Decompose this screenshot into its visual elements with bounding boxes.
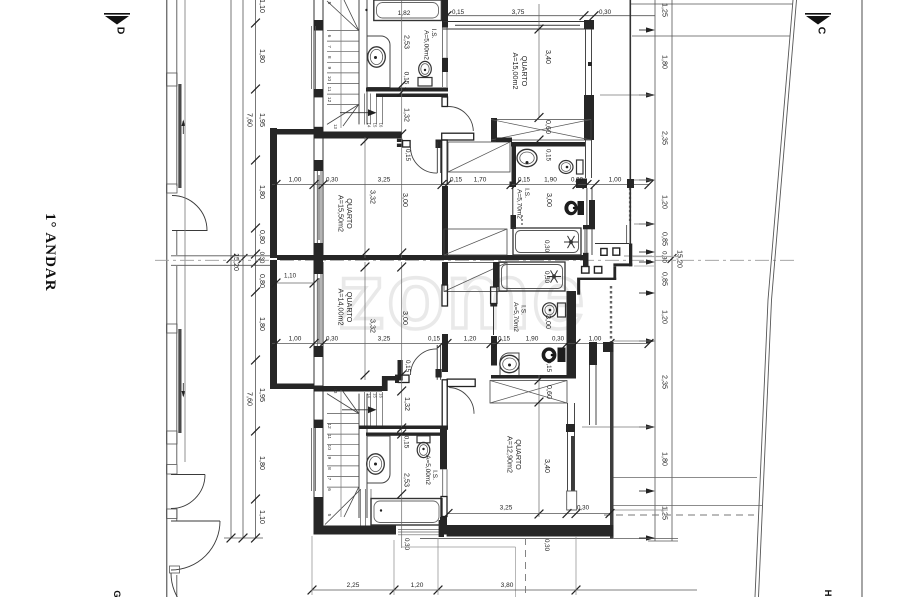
svg-text:11: 11: [326, 87, 332, 92]
svg-text:1,00: 1,00: [289, 336, 302, 343]
svg-text:A=12,90m2: A=12,90m2: [506, 436, 515, 473]
svg-text:1,20: 1,20: [464, 336, 477, 343]
svg-text:3,00: 3,00: [545, 193, 554, 207]
svg-text:9: 9: [326, 456, 332, 459]
svg-text:3,00: 3,00: [544, 315, 553, 329]
svg-text:0,80: 0,80: [258, 274, 267, 288]
svg-text:14: 14: [366, 123, 371, 128]
svg-text:1,80: 1,80: [661, 452, 670, 466]
svg-text:3,00: 3,00: [401, 193, 410, 207]
svg-text:8: 8: [326, 467, 332, 470]
svg-text:1,00: 1,00: [589, 336, 602, 343]
svg-text:1,95: 1,95: [258, 388, 267, 402]
svg-text:A=14,00m2: A=14,00m2: [337, 289, 346, 326]
svg-text:3,25: 3,25: [378, 336, 391, 343]
svg-text:1,90: 1,90: [544, 177, 557, 184]
svg-text:1,25: 1,25: [661, 3, 670, 17]
svg-text:3,75: 3,75: [512, 9, 525, 16]
svg-text:0,30: 0,30: [577, 505, 590, 512]
svg-text:I.S.: I.S.: [431, 470, 438, 480]
svg-text:0,85: 0,85: [661, 232, 670, 246]
svg-text:1,80: 1,80: [661, 55, 670, 69]
svg-text:D: D: [115, 27, 127, 35]
svg-text:0,80: 0,80: [258, 230, 267, 244]
svg-text:0,15: 0,15: [404, 360, 411, 373]
svg-text:G: G: [111, 590, 122, 597]
svg-text:0,15: 0,15: [428, 336, 441, 343]
svg-text:1,70: 1,70: [474, 177, 487, 184]
svg-text:11: 11: [326, 434, 332, 439]
svg-text:A=15,50m2: A=15,50m2: [337, 195, 346, 232]
svg-text:1,95: 1,95: [258, 113, 267, 127]
svg-text:2,53: 2,53: [403, 473, 412, 487]
svg-text:0,85: 0,85: [661, 272, 670, 286]
svg-text:0,15: 0,15: [404, 149, 411, 162]
svg-text:A=5,00m2: A=5,00m2: [424, 455, 431, 485]
svg-text:0,15: 0,15: [518, 177, 531, 184]
svg-text:10: 10: [326, 76, 332, 82]
svg-text:1,20: 1,20: [411, 582, 424, 589]
svg-text:15: 15: [372, 123, 377, 128]
svg-text:3,25: 3,25: [378, 177, 391, 184]
svg-text:1,80: 1,80: [258, 456, 267, 470]
svg-text:C: C: [816, 27, 828, 35]
svg-text:0,30: 0,30: [326, 177, 339, 184]
svg-text:0,15: 0,15: [403, 436, 410, 449]
svg-text:0,30: 0,30: [403, 538, 410, 551]
svg-text:1,20: 1,20: [661, 195, 670, 209]
svg-text:0,30: 0,30: [543, 271, 550, 284]
svg-text:1,00: 1,00: [609, 177, 622, 184]
svg-text:6: 6: [326, 488, 332, 491]
svg-text:1,80: 1,80: [258, 317, 267, 331]
svg-text:2,35: 2,35: [661, 375, 670, 389]
svg-text:1,10: 1,10: [284, 273, 297, 280]
svg-text:2,25: 2,25: [347, 582, 360, 589]
svg-text:5: 5: [326, 514, 332, 517]
svg-text:2,53: 2,53: [403, 35, 412, 49]
svg-text:13: 13: [333, 124, 338, 129]
svg-text:12: 12: [326, 97, 332, 103]
svg-text:1,10: 1,10: [258, 0, 267, 13]
svg-text:A=5,70m2: A=5,70m2: [516, 189, 523, 219]
svg-text:1,80: 1,80: [258, 185, 267, 199]
svg-text:6: 6: [326, 35, 332, 38]
svg-text:0,15: 0,15: [452, 9, 465, 16]
svg-text:1,00: 1,00: [289, 177, 302, 184]
svg-text:0,15: 0,15: [545, 149, 552, 162]
svg-text:0,15: 0,15: [498, 336, 511, 343]
svg-text:15,20: 15,20: [676, 250, 685, 268]
svg-text:14: 14: [366, 393, 371, 398]
svg-text:0,60: 0,60: [545, 385, 554, 399]
svg-text:A=15,00m2: A=15,00m2: [511, 53, 520, 90]
svg-text:0,30: 0,30: [552, 336, 565, 343]
svg-text:7,60: 7,60: [246, 113, 255, 127]
svg-text:8: 8: [326, 56, 332, 59]
svg-text:H: H: [822, 590, 833, 597]
svg-text:1,25: 1,25: [661, 506, 670, 520]
svg-text:A=5,00m2: A=5,00m2: [423, 30, 430, 60]
svg-text:3,32: 3,32: [369, 319, 378, 333]
svg-text:1,32: 1,32: [403, 397, 412, 411]
svg-text:3,40: 3,40: [543, 459, 552, 473]
svg-text:7: 7: [326, 45, 332, 48]
svg-text:0,30: 0,30: [661, 251, 667, 263]
svg-text:15: 15: [372, 393, 377, 398]
svg-text:9: 9: [326, 66, 332, 69]
svg-text:0,15: 0,15: [450, 177, 463, 184]
svg-text:1,80: 1,80: [258, 49, 267, 63]
svg-text:3,80: 3,80: [501, 582, 514, 589]
svg-text:1,32: 1,32: [403, 108, 412, 122]
svg-text:I.S.: I.S.: [523, 188, 530, 198]
svg-text:3,25: 3,25: [500, 505, 513, 512]
svg-text:1,20: 1,20: [661, 310, 670, 324]
svg-text:0,30: 0,30: [543, 539, 550, 552]
svg-text:0,30: 0,30: [543, 240, 550, 253]
svg-text:1,82: 1,82: [398, 10, 411, 17]
svg-text:3,40: 3,40: [544, 50, 553, 64]
svg-text:3,00: 3,00: [401, 311, 410, 325]
svg-text:I.S.: I.S.: [430, 29, 437, 39]
svg-text:I.S.: I.S.: [520, 305, 527, 315]
svg-text:0,30: 0,30: [599, 9, 612, 16]
svg-text:1° ANDAR: 1° ANDAR: [42, 213, 58, 292]
svg-text:16: 16: [378, 123, 383, 128]
svg-text:0,30: 0,30: [571, 177, 584, 184]
svg-text:10: 10: [326, 445, 332, 451]
svg-text:0,30: 0,30: [326, 336, 339, 343]
svg-text:1,10: 1,10: [258, 510, 267, 524]
svg-text:3,32: 3,32: [369, 190, 378, 204]
svg-text:7,60: 7,60: [246, 392, 255, 406]
svg-text:QUARTO: QUARTO: [520, 56, 529, 87]
svg-text:13: 13: [333, 389, 338, 394]
svg-text:16: 16: [378, 393, 383, 398]
svg-text:0,15: 0,15: [545, 360, 552, 373]
svg-text:1,90: 1,90: [526, 336, 539, 343]
svg-text:7: 7: [326, 478, 332, 481]
svg-text:12: 12: [326, 423, 332, 429]
svg-text:0,30: 0,30: [258, 252, 264, 264]
svg-text:2,35: 2,35: [661, 131, 670, 145]
svg-text:A=5,70m2: A=5,70m2: [512, 302, 519, 332]
